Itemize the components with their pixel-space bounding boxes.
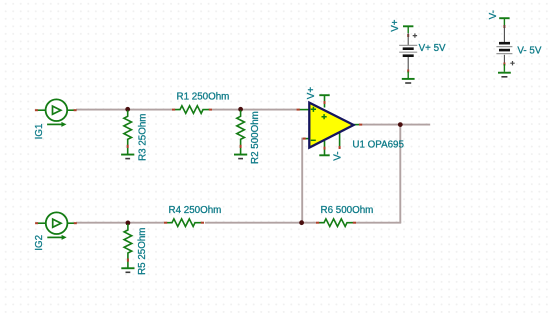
svg-text:R6 500Ohm: R6 500Ohm [321, 205, 374, 216]
svg-text:V+ 5V: V+ 5V [419, 43, 446, 54]
svg-text:R1 250Ohm: R1 250Ohm [177, 92, 230, 103]
svg-text:U1 OPA695: U1 OPA695 [352, 139, 404, 150]
svg-text:R5 25Ohm: R5 25Ohm [137, 228, 148, 275]
svg-text:IG1: IG1 [34, 124, 45, 140]
svg-text:IG2: IG2 [34, 235, 45, 251]
svg-text:V- 5V: V- 5V [517, 45, 541, 56]
svg-text:R4 250Ohm: R4 250Ohm [169, 205, 222, 216]
svg-text:V+: V+ [306, 87, 317, 100]
svg-text:R3 25Ohm: R3 25Ohm [137, 114, 148, 161]
svg-text:V-: V- [488, 10, 499, 19]
svg-text:V+: V+ [390, 19, 401, 32]
svg-text:R2 500Ohm: R2 500Ohm [250, 111, 261, 164]
svg-text:V-: V- [332, 151, 343, 160]
